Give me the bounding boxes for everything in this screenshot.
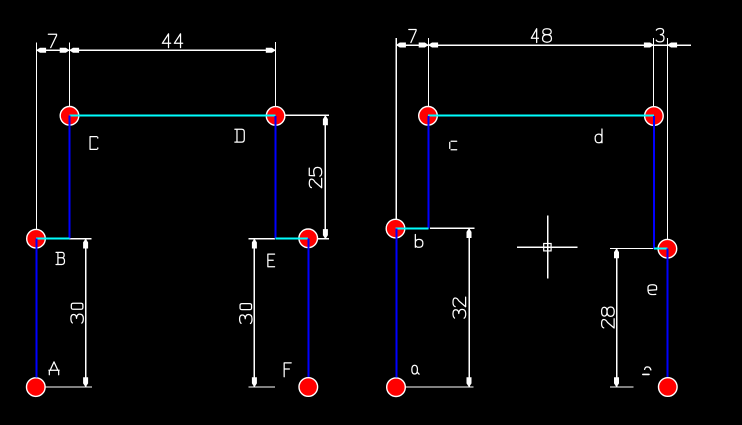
dimension text 48 xyxy=(531,29,538,43)
dimension text 3 xyxy=(656,29,664,42)
point c xyxy=(419,107,438,126)
dimension text 44 xyxy=(162,34,170,48)
label A xyxy=(49,362,59,375)
wire e-f (blue) xyxy=(667,249,669,378)
dimension 30 right (dim line + arrows) xyxy=(253,239,255,387)
label c xyxy=(450,141,457,150)
wire c-d (cyan) xyxy=(428,115,654,117)
point d xyxy=(645,107,664,126)
wire B-A (blue) xyxy=(36,239,38,378)
crosshair cursor vertical xyxy=(547,216,549,279)
dimension text 30 left (rotated) xyxy=(71,314,83,323)
dimension 30 right (extension lines) xyxy=(248,238,275,240)
wire b-a (blue) xyxy=(395,229,397,378)
dimension 7 (left figure, dim line + arrows) xyxy=(36,49,69,51)
crosshair pickbox xyxy=(544,244,551,251)
wire E-F (blue) xyxy=(307,238,309,377)
dimension text 7 (right) xyxy=(409,29,416,42)
point C xyxy=(60,107,79,126)
dimension 28 (extension lines) xyxy=(610,247,653,249)
dimension text 25 (rotated) xyxy=(309,178,321,187)
label D xyxy=(235,129,244,142)
point D xyxy=(266,107,285,126)
label C xyxy=(90,137,98,150)
point e xyxy=(658,239,677,258)
dimension 25 (dim line + arrows) xyxy=(324,116,326,239)
point F xyxy=(299,378,318,397)
dimension 44 (dim line + arrows) xyxy=(69,49,275,51)
label E xyxy=(268,254,275,267)
wire corner-B (cyan) xyxy=(36,237,70,239)
dimension text 30 right (rotated) xyxy=(240,315,252,324)
label d xyxy=(595,129,602,143)
label a xyxy=(412,365,419,374)
label F xyxy=(284,363,291,377)
point B xyxy=(27,229,46,248)
label b xyxy=(415,235,423,248)
wire corner-E (cyan) xyxy=(276,237,309,239)
wire D-corner (blue) xyxy=(275,116,277,239)
point E xyxy=(299,229,318,248)
point f xyxy=(659,378,678,397)
wire corner-e (cyan) xyxy=(654,247,668,249)
point b xyxy=(386,219,405,238)
dimension 32 (dim line + arrows) xyxy=(468,228,470,387)
wire corner-b (cyan) xyxy=(396,227,429,229)
dimension 44 (extension line right) xyxy=(275,42,277,116)
dimension 3 (extension line right) xyxy=(666,38,668,249)
dimension text 28 (rotated) xyxy=(602,319,615,328)
dimension 7 (left figure, extension lines) xyxy=(35,43,37,239)
dimension 30 left (extension lines) xyxy=(44,238,92,240)
dimension 7 (right figure, dim line + arrows) xyxy=(396,44,428,46)
dimension text 7 (left) xyxy=(48,34,56,47)
label f (partially drawn) xyxy=(645,367,651,370)
label e xyxy=(648,285,657,295)
dimension 3 (dim line, outside arrow, tail) xyxy=(654,44,691,46)
dimension 25 (extension lines) xyxy=(276,114,329,116)
wire c-corner (blue) xyxy=(428,116,430,229)
dimension 30 left (dim line + arrows) xyxy=(85,239,87,387)
crosshair cursor horizontal xyxy=(517,246,578,248)
label B xyxy=(56,252,64,264)
wire d-corner (blue) xyxy=(653,116,655,248)
wire C-D (cyan) xyxy=(70,115,276,117)
dimension 48 (dim line + arrows) xyxy=(428,44,653,46)
dimension 48 (extension line right) xyxy=(653,38,655,116)
dimension 28 (dim line + arrows) xyxy=(616,249,618,387)
dimension 32 (extension lines) xyxy=(430,227,475,229)
dimension text 32 (rotated) xyxy=(453,309,466,318)
dimension 7 (right figure, extension lines) xyxy=(395,38,397,229)
point a xyxy=(387,378,406,397)
wire C-corner (blue) xyxy=(69,116,71,239)
point A xyxy=(27,378,46,397)
